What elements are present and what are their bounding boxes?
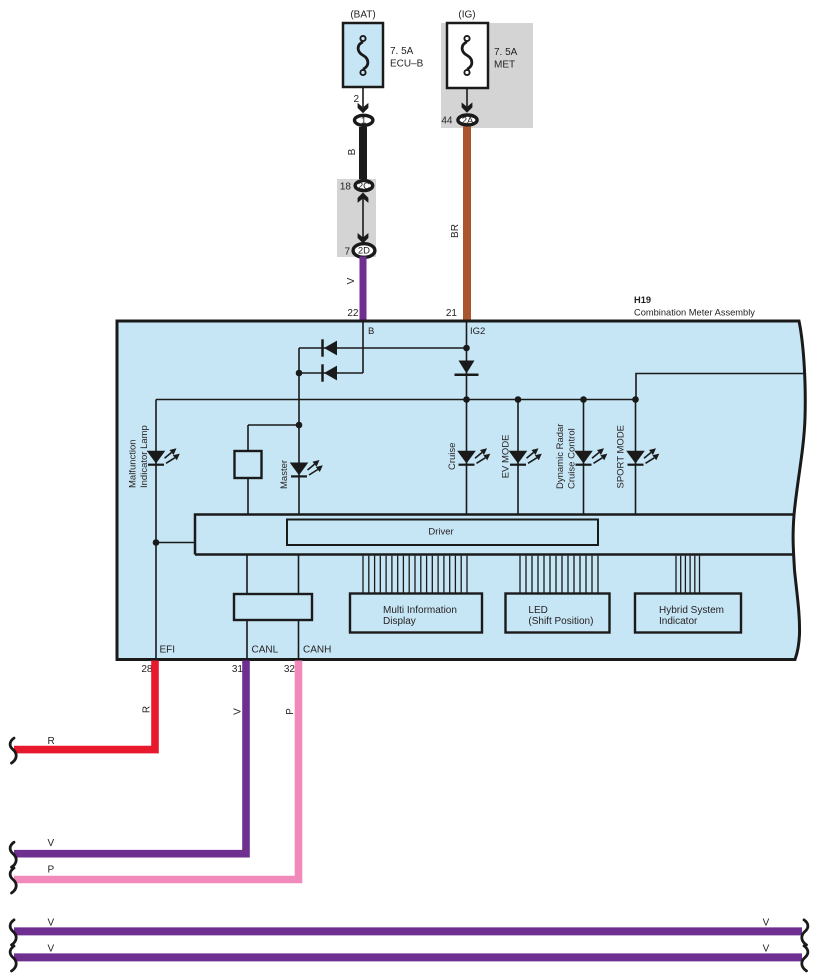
junction dot IG2 upper <box>463 345 470 352</box>
svg-text:Dynamic RadarCruise Control: Dynamic RadarCruise Control <box>555 424 578 489</box>
wire BR brown <box>463 127 471 322</box>
svg-text:1: 1 <box>361 116 366 127</box>
junction dot bus DRCC <box>580 396 587 403</box>
svg-text:(Shift Position): (Shift Position) <box>528 616 593 627</box>
wire fuse MET to connector 2A <box>466 88 468 107</box>
wire V violet <box>360 257 367 322</box>
svg-text:CANH: CANH <box>303 645 331 656</box>
resistor box <box>235 451 262 478</box>
svg-text:Display: Display <box>383 616 416 627</box>
diode D3 <box>455 361 479 375</box>
label H19 Combination Meter Assembly <box>634 295 755 318</box>
svg-text:EFI: EFI <box>160 645 176 656</box>
LED Dynamic Radar Cruise Control <box>574 448 607 464</box>
wire P pink CANH <box>14 661 299 880</box>
wire 2C to 2D with arrows <box>358 193 369 244</box>
svg-text:2C: 2C <box>358 181 370 192</box>
break symbol V bus lower left <box>10 946 16 971</box>
svg-text:2: 2 <box>353 94 359 105</box>
connector 2A <box>458 115 477 126</box>
junction dot bus SPORT <box>632 396 639 403</box>
wire CAN to pin CANL <box>246 620 248 659</box>
svg-text:CANL: CANL <box>252 645 279 656</box>
svg-text:BR: BR <box>450 224 461 238</box>
wire CAN to pin CANH <box>298 620 300 659</box>
break symbol V bus upper left <box>10 920 16 945</box>
svg-text:22: 22 <box>347 308 359 319</box>
svg-text:V: V <box>233 708 244 715</box>
wire DRCC branch <box>583 400 585 515</box>
wire bus horizontal <box>156 399 636 401</box>
junction dot bus IG2 <box>463 396 470 403</box>
svg-text:Combination Meter Assembly: Combination Meter Assembly <box>634 308 755 318</box>
LED Cruise <box>457 448 490 464</box>
svg-text:44: 44 <box>441 116 453 127</box>
svg-text:H19: H19 <box>634 295 651 305</box>
wire V violet CANL <box>14 661 246 854</box>
break symbol red wire <box>10 738 16 763</box>
svg-text:V: V <box>346 277 357 284</box>
svg-text:P: P <box>285 708 296 715</box>
break symbol V bus lower right <box>802 946 808 971</box>
junction block gray 2C/2D <box>337 179 376 257</box>
svg-text:P: P <box>48 865 55 876</box>
wire EV branch <box>517 400 519 515</box>
LED shift position box <box>506 594 610 633</box>
wire V bus upper <box>14 927 802 935</box>
wire left branch vertical <box>298 348 300 515</box>
wire upper diode line <box>299 347 467 349</box>
svg-text:V: V <box>48 838 55 849</box>
svg-text:B: B <box>347 148 358 155</box>
wire IG2 internal vertical <box>466 321 468 515</box>
svg-text:ECU–B: ECU–B <box>390 59 424 70</box>
wire driver to CAN left <box>246 555 248 594</box>
fuse MET <box>447 23 488 88</box>
svg-text:7. 5A: 7. 5A <box>390 46 414 57</box>
driver band outer <box>195 515 795 555</box>
svg-text:Indicator: Indicator <box>659 616 698 627</box>
junction dot master branch <box>296 422 303 429</box>
svg-text:V: V <box>763 918 770 929</box>
diode D2 <box>323 364 338 381</box>
wire fuse ECU-B to connector 1 <box>362 87 364 107</box>
wire lower diode line <box>299 372 363 374</box>
svg-text:SPORT MODE: SPORT MODE <box>616 425 627 489</box>
CAN transceiver box <box>234 594 312 620</box>
svg-text:32: 32 <box>284 664 296 675</box>
LED SPORT MODE <box>626 448 659 464</box>
wire B internal vertical <box>362 321 364 373</box>
svg-text:R: R <box>48 736 55 747</box>
svg-text:LED: LED <box>528 605 547 616</box>
svg-text:B: B <box>368 326 374 337</box>
connector 2D <box>353 244 375 258</box>
wire bus right riser <box>636 374 806 400</box>
svg-text:V: V <box>48 918 55 929</box>
arrow into connector 2A <box>462 102 473 112</box>
svg-text:(IG): (IG) <box>458 10 475 21</box>
svg-text:21: 21 <box>446 308 458 319</box>
multi information display box <box>350 594 482 633</box>
junction dot MIL <box>153 539 160 546</box>
diode D1 <box>323 339 338 356</box>
svg-text:Cruise: Cruise <box>447 443 458 470</box>
svg-text:MET: MET <box>494 60 515 71</box>
junction dot bus EV <box>515 396 522 403</box>
svg-text:2A: 2A <box>462 115 474 126</box>
svg-text:31: 31 <box>232 664 244 675</box>
junction dot lower diode <box>296 370 303 377</box>
hatch wires driver to MID <box>363 556 467 594</box>
wire MIL to driver <box>156 542 195 544</box>
svg-text:Master: Master <box>279 460 290 489</box>
value label 7.5A MET <box>494 47 518 71</box>
wire R red <box>14 661 155 750</box>
LED EV MODE <box>509 448 542 464</box>
svg-text:Hybrid System: Hybrid System <box>659 605 724 616</box>
hatch wires driver to LED shift <box>520 556 598 594</box>
connector 2C <box>355 181 373 192</box>
combination meter assembly box H19 <box>117 321 805 660</box>
svg-text:R: R <box>142 706 153 713</box>
hatch wires driver to hybrid indicator <box>676 556 700 594</box>
wire resistor branch vertical <box>247 425 249 515</box>
value label 7.5A ECU-B <box>390 46 424 70</box>
svg-text:IG2: IG2 <box>470 326 485 337</box>
svg-text:V: V <box>763 944 770 955</box>
junction block gray background <box>441 23 533 128</box>
fuse ECU-B <box>343 23 383 87</box>
driver box <box>287 520 598 546</box>
wire SPORT branch <box>635 400 637 515</box>
svg-text:EV MODE: EV MODE <box>501 434 512 478</box>
wire resistor branch horizontal <box>248 424 299 426</box>
svg-text:7: 7 <box>344 247 350 258</box>
svg-text:Driver: Driver <box>428 527 453 538</box>
break symbol P wire <box>10 868 16 893</box>
svg-text:Multi Information: Multi Information <box>383 605 457 616</box>
svg-text:2D: 2D <box>358 246 370 257</box>
wire MIL branch <box>155 400 157 660</box>
LED Master <box>290 460 323 476</box>
connector 1 <box>355 115 373 126</box>
svg-text:V: V <box>48 944 55 955</box>
LED Malfunction Indicator Lamp <box>147 448 180 464</box>
hybrid system indicator box <box>635 594 741 633</box>
svg-text:18: 18 <box>340 182 352 193</box>
arrow into connector 1 <box>358 103 369 113</box>
wire V bus lower <box>14 953 802 961</box>
wire driver to CAN right <box>298 555 300 594</box>
svg-text:7. 5A: 7. 5A <box>494 47 518 58</box>
svg-text:(BAT): (BAT) <box>350 10 375 21</box>
break symbol V wire <box>10 842 16 867</box>
break symbol V bus upper right <box>802 920 808 945</box>
wire B black <box>359 127 367 179</box>
